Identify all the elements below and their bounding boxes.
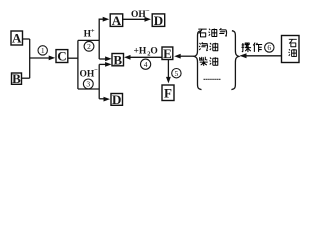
arrow into A2: [103, 17, 110, 22]
arrow into D1: [145, 17, 152, 22]
svg-text:4: 4: [144, 60, 148, 69]
circled 6: [265, 43, 274, 52]
wire corner to D2: [99, 98, 104, 100]
box B2: [112, 52, 124, 67]
arrow into E: [174, 54, 181, 59]
box shiyou: [282, 36, 300, 63]
svg-text:A: A: [12, 31, 22, 46]
wire main vertical: [77, 40, 79, 89]
wire A1 to bracket: [23, 38, 30, 40]
left brace: [194, 31, 201, 90]
circled 1: [38, 46, 47, 55]
wire A2 to D1: [123, 18, 146, 20]
svg-text:O: O: [150, 47, 157, 57]
svg-text:OH: OH: [80, 70, 95, 80]
wire lower rail: [78, 88, 99, 90]
circled 3: [83, 79, 93, 89]
svg-text:OH: OH: [131, 10, 146, 20]
arrow into D2: [104, 97, 111, 102]
label OH- top: [131, 7, 150, 19]
arrow into C: [49, 56, 56, 61]
arrowhead at brace: [240, 53, 247, 58]
svg-text:−: −: [94, 67, 98, 74]
wire E to B2: [130, 56, 162, 58]
wire lower right vertical: [98, 64, 100, 98]
svg-text:B: B: [12, 71, 21, 86]
circled 2: [84, 41, 94, 51]
wire lower corner to B2: [99, 63, 106, 65]
box F: [162, 85, 174, 101]
label OH- mid: [80, 67, 99, 80]
wire B1 to bracket: [22, 77, 30, 79]
arrow into F: [166, 77, 171, 84]
label caozuo: [241, 43, 262, 52]
arrow to brace from shiyou: [246, 55, 281, 57]
arrow into B2 lower: [105, 62, 112, 67]
svg-text:+: +: [91, 27, 95, 34]
wire upper rail: [78, 39, 99, 41]
wire brace to E: [180, 55, 194, 57]
right brace: [231, 31, 238, 90]
wire upper right vertical: [99, 19, 103, 59]
wire upper corner to B2: [99, 58, 106, 60]
wire C to main vertical: [68, 57, 78, 59]
arrow into B2 right: [124, 55, 131, 60]
svg-text:B: B: [113, 52, 122, 67]
svg-text:D: D: [154, 13, 163, 28]
svg-text:3: 3: [86, 80, 90, 89]
svg-text:A: A: [112, 13, 122, 28]
label qiyou: [199, 42, 218, 50]
wire merge to C: [30, 57, 50, 59]
label shiyouqi: [198, 28, 227, 37]
circled 4: [141, 59, 151, 69]
wire E to F: [167, 60, 169, 78]
svg-text:2: 2: [87, 42, 91, 51]
wire bracket vertical: [29, 39, 31, 78]
svg-text:F: F: [164, 86, 172, 101]
svg-text:+H: +H: [134, 47, 147, 57]
box E: [162, 46, 173, 61]
svg-text:−: −: [146, 7, 150, 14]
circled 5: [172, 69, 181, 78]
box D1: [152, 13, 165, 28]
box A1: [11, 31, 23, 46]
svg-text:1: 1: [41, 46, 45, 55]
dotted ellipsis: [204, 78, 221, 80]
box A2: [110, 13, 123, 28]
label +H2O: [134, 47, 158, 58]
svg-text:E: E: [163, 46, 172, 61]
box C: [56, 49, 68, 64]
svg-text:5: 5: [175, 69, 179, 78]
svg-text:6: 6: [267, 43, 271, 52]
arrow into B2 upper: [105, 56, 112, 61]
box B1: [12, 71, 22, 86]
svg-text:C: C: [57, 49, 66, 64]
svg-text:D: D: [112, 92, 121, 107]
box D2: [111, 92, 123, 107]
label H+: [84, 27, 95, 39]
label chaiyou: [199, 57, 218, 66]
